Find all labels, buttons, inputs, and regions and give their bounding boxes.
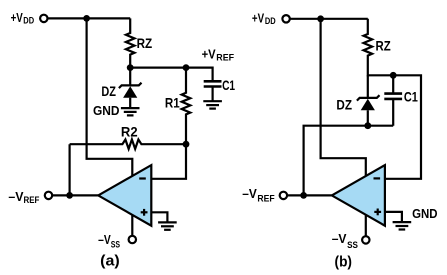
svg-text:RZ: RZ xyxy=(137,35,153,51)
svg-text:+V: +V xyxy=(11,10,23,25)
svg-text:DZ: DZ xyxy=(101,83,116,99)
svg-text:C1: C1 xyxy=(222,77,235,93)
svg-text:DD: DD xyxy=(265,16,276,26)
svg-text:DD: DD xyxy=(23,16,34,26)
svg-text:(b): (b) xyxy=(335,254,353,271)
svg-text:SS: SS xyxy=(111,239,120,249)
svg-text:GND: GND xyxy=(412,206,437,221)
svg-text:R2: R2 xyxy=(121,124,138,140)
svg-text:C1: C1 xyxy=(404,88,418,104)
svg-text:+V: +V xyxy=(252,10,264,25)
svg-text:R1: R1 xyxy=(165,94,180,110)
svg-text:–V: –V xyxy=(332,231,347,246)
svg-text:(a): (a) xyxy=(100,253,120,270)
svg-text:+V: +V xyxy=(202,47,216,62)
svg-text:–V: –V xyxy=(98,232,111,247)
svg-text:–V: –V xyxy=(8,189,23,204)
svg-text:GND: GND xyxy=(93,103,120,118)
svg-text:SS: SS xyxy=(347,240,358,250)
svg-text:REF: REF xyxy=(216,53,234,63)
svg-text:REF: REF xyxy=(257,194,275,204)
svg-text:RZ: RZ xyxy=(376,38,392,54)
svg-text:–V: –V xyxy=(242,186,257,201)
svg-text:DZ: DZ xyxy=(336,97,352,113)
svg-text:REF: REF xyxy=(24,195,40,205)
